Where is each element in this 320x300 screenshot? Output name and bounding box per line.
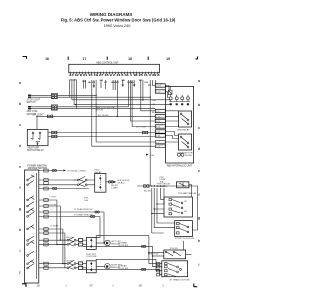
conn box a bbox=[44, 179, 48, 182]
svg-text:34 12 8 21 15 19 27 16 9 2 14: 34 12 8 21 15 19 27 16 9 2 14 6 31 1 18 … bbox=[69, 73, 160, 77]
M1 out wire i bbox=[39, 232, 65, 234]
svg-text:RT REAR WINDOW: RT REAR WINDOW bbox=[74, 214, 93, 217]
inline connector on g bbox=[90, 215, 95, 217]
inline connector top feed bbox=[52, 169, 57, 171]
U2 pin connector e bbox=[155, 119, 165, 123]
inter label bbox=[86, 254, 96, 258]
U2 internal wires from pins bbox=[166, 86, 179, 143]
svg-text:85: 85 bbox=[181, 104, 183, 106]
junction v63 bbox=[62, 263, 63, 264]
arrow terminal K2 bbox=[114, 181, 117, 183]
C2 contact 2 bbox=[67, 265, 76, 270]
U2 switch A contacts bbox=[180, 113, 189, 125]
arrow label bbox=[117, 180, 130, 184]
inline connector row2 (2-pole) bbox=[51, 105, 57, 110]
svg-text:b: b bbox=[198, 103, 200, 107]
svg-text:M: M bbox=[106, 241, 108, 245]
svg-text:|: | bbox=[113, 284, 114, 288]
rear switch SB3 box bbox=[162, 261, 188, 277]
U2 inner switch box B bbox=[179, 134, 192, 150]
wire row2 lower bbox=[31, 108, 155, 110]
wire drop elbow to h3 bbox=[72, 80, 171, 100]
M1 out wire g bbox=[39, 216, 100, 218]
wire drop to conn c bbox=[141, 80, 156, 111]
svg-text:3 BN: 3 BN bbox=[156, 121, 161, 123]
relay K1 box bbox=[177, 182, 189, 188]
SB2 terminals bbox=[177, 222, 180, 234]
svg-text:ABS HYDRAULIC UNIT: ABS HYDRAULIC UNIT bbox=[167, 165, 193, 168]
U2 pin connector b bbox=[155, 90, 165, 94]
wire M2 to motor bbox=[96, 242, 104, 244]
inline connector S1 upper bbox=[143, 131, 148, 135]
motor circle 1 bbox=[105, 240, 111, 246]
wire drop to conn b bbox=[154, 80, 156, 92]
U2 contact circles row bbox=[169, 95, 190, 106]
svg-text:SB: SB bbox=[122, 80, 125, 82]
relay K2 inner bbox=[100, 175, 101, 191]
grid corner top-right bbox=[196, 57, 198, 60]
ground ref arrow bbox=[146, 154, 149, 156]
svg-text:d: d bbox=[19, 144, 21, 148]
bottom grid marks bbox=[36, 284, 163, 288]
power window bus horizontal bbox=[137, 185, 198, 187]
K2 input contact 1 bbox=[77, 176, 87, 181]
mid mesh label 1 bbox=[96, 106, 115, 111]
window switch SB1 box bbox=[164, 197, 192, 217]
conn box b bbox=[44, 182, 48, 185]
svg-text:GN: GN bbox=[152, 104, 156, 106]
U2 inner coil bbox=[168, 86, 172, 94]
svg-text:25A: 25A bbox=[152, 99, 156, 102]
motor1 label bbox=[111, 241, 121, 245]
window motor M2 box bbox=[86, 237, 96, 249]
conn box top feed bbox=[44, 169, 48, 172]
grid tick top bbox=[68, 57, 69, 60]
wire pin stub 10 bbox=[112, 80, 114, 90]
M1 switch 5 bbox=[27, 208, 34, 213]
svg-text:|: | bbox=[163, 284, 164, 288]
wire drop long to conn i upper bbox=[96, 80, 155, 142]
conn box g bbox=[44, 215, 48, 218]
U2 switch B contacts bbox=[180, 136, 189, 148]
svg-text:8 GR: 8 GR bbox=[156, 127, 161, 129]
M1 out wire h bbox=[39, 228, 63, 230]
M1 switch 12 bbox=[27, 251, 34, 256]
svg-text:87: 87 bbox=[170, 104, 172, 106]
svg-text:RD: RD bbox=[152, 108, 156, 110]
M1 switch 8 bbox=[27, 236, 34, 241]
svg-text:f: f bbox=[198, 193, 200, 197]
svg-text:M: M bbox=[106, 265, 108, 269]
svg-text:OG: OG bbox=[145, 82, 149, 84]
svg-text:BL: BL bbox=[152, 112, 155, 114]
svg-text:DOOR SW: DOOR SW bbox=[118, 268, 128, 270]
svg-text:|: | bbox=[66, 284, 67, 288]
svg-text:RT REAR DOOR SW: RT REAR DOOR SW bbox=[170, 278, 190, 281]
svg-text:18: 18 bbox=[138, 284, 142, 288]
wire pin stub 9 bbox=[104, 80, 106, 89]
bus drop 1 bbox=[152, 188, 164, 233]
wire pin stub 5 bbox=[83, 80, 85, 89]
U2 pin connector c bbox=[155, 109, 165, 113]
inline conn marks hR4 bbox=[141, 268, 146, 270]
svg-text:ABS PUMP: ABS PUMP bbox=[27, 147, 39, 150]
M1 top feed wire bbox=[39, 170, 64, 172]
wire into B6 top bbox=[183, 241, 185, 250]
M1 switch 1 bbox=[27, 176, 34, 181]
svg-text:S/P JOINT: S/P JOINT bbox=[136, 127, 147, 129]
wire M3 to motor bbox=[96, 265, 104, 267]
svg-text:IN RUN: IN RUN bbox=[96, 109, 104, 111]
svg-text:e: e bbox=[198, 169, 200, 173]
arrow terminal top feed bbox=[64, 169, 67, 171]
svg-text:2 GN: 2 GN bbox=[156, 92, 161, 94]
label near f g bbox=[74, 208, 93, 217]
C1 contact 2 bbox=[67, 241, 76, 246]
motor circle 2 bbox=[105, 264, 111, 270]
svg-text:VT: VT bbox=[104, 82, 107, 84]
label mid right 2 bbox=[118, 265, 128, 270]
wire S1 out upper bbox=[48, 132, 155, 134]
svg-text:Fig. 5: ABS Ctrl Sw, Power Wi: Fig. 5: ABS Ctrl Sw, Power Window Door S… bbox=[61, 17, 176, 22]
relay K1 inner bbox=[179, 183, 186, 188]
svg-text:RD-WT: RD-WT bbox=[144, 190, 152, 192]
svg-text:9 GR: 9 GR bbox=[156, 146, 161, 148]
C1 conn boxes bbox=[79, 239, 83, 247]
relay K2 box bbox=[95, 173, 106, 192]
vertical feed v56.9 bbox=[57, 200, 67, 244]
junction dots bus bbox=[151, 185, 165, 186]
SB3 input conn boxes bbox=[157, 263, 160, 276]
svg-text:d: d bbox=[198, 147, 200, 151]
switch S1 contacts bbox=[31, 132, 41, 144]
U2 pin connector a bbox=[155, 84, 165, 88]
U2 pin connector d bbox=[155, 115, 165, 119]
inline conn marks hR2 bbox=[141, 245, 146, 247]
svg-text:h: h bbox=[19, 228, 21, 232]
svg-text:30: 30 bbox=[176, 104, 178, 106]
M1 out wire f bbox=[39, 211, 104, 213]
grid corner bottom-left bbox=[22, 284, 26, 288]
wire drop long to conn i lower bbox=[92, 80, 156, 146]
M1 switch 7 bbox=[27, 225, 34, 230]
ABS control unit U1 box bbox=[69, 64, 160, 73]
M1 switch 3 bbox=[27, 196, 34, 201]
bus drop 4 bbox=[161, 188, 164, 199]
conn box f bbox=[44, 211, 48, 214]
master switch M1 box bbox=[25, 170, 39, 283]
vertical feed v62.9 bbox=[63, 229, 67, 264]
conn box c bbox=[44, 187, 48, 190]
M3 inner bbox=[91, 262, 92, 272]
svg-text:a: a bbox=[19, 81, 21, 85]
B6 out bbox=[186, 253, 192, 255]
M1 switch arrows bbox=[31, 175, 34, 263]
circuit1 top wire right bbox=[96, 236, 149, 238]
svg-text:86: 86 bbox=[187, 104, 189, 106]
right bus vertical bbox=[192, 186, 197, 230]
M1 out wire d bbox=[39, 199, 57, 201]
svg-text:OR ACC: OR ACC bbox=[117, 181, 125, 184]
window switch SB2 box bbox=[175, 221, 193, 237]
svg-text:LT REAR: LT REAR bbox=[50, 224, 59, 227]
wire contacts to M3 bbox=[76, 264, 86, 268]
wire row2 bbox=[31, 106, 128, 108]
M1 switch 11 bbox=[27, 264, 34, 269]
svg-text:DOOR SW: DOOR SW bbox=[86, 256, 96, 258]
bus drop 5 bbox=[163, 188, 165, 204]
conn box h bbox=[44, 228, 48, 231]
svg-text:17: 17 bbox=[83, 57, 87, 61]
wire pin stub 8 bbox=[100, 80, 102, 88]
motor2 label bbox=[111, 265, 123, 269]
right column vertical 2 bbox=[153, 246, 162, 266]
wire drop to conn e bbox=[131, 80, 156, 121]
svg-text:i: i bbox=[20, 249, 21, 253]
svg-text:1990 Volvo 240: 1990 Volvo 240 bbox=[104, 23, 132, 28]
long bus wire drop center bbox=[149, 80, 151, 186]
svg-text:RT FRT DOOR SW: RT FRT DOOR SW bbox=[175, 238, 195, 240]
inline connector on c bbox=[52, 187, 57, 189]
door circuit 2 wires in bbox=[39, 264, 67, 268]
wire row1 bbox=[31, 94, 96, 96]
wire drop elbow to h6 bbox=[75, 80, 77, 109]
wire drop to conn f bbox=[132, 80, 155, 127]
C1 contact 1 bbox=[67, 237, 76, 242]
switch S1 box bbox=[27, 129, 48, 145]
svg-text:MOTOR RELAY: MOTOR RELAY bbox=[27, 149, 44, 152]
wire K2 out bbox=[106, 181, 113, 183]
conn box i bbox=[44, 232, 48, 235]
K2 input contact 2 bbox=[77, 181, 87, 186]
wire drop to row3 junction bbox=[116, 80, 118, 116]
B6 left feed 1 bbox=[149, 252, 164, 254]
right column vertical 4 bbox=[160, 269, 162, 274]
svg-text:f: f bbox=[19, 186, 21, 190]
M1 switch 9 bbox=[27, 240, 34, 245]
svg-text:HOT AT ALL TIMES: HOT AT ALL TIMES bbox=[68, 169, 87, 172]
svg-text:YE: YE bbox=[148, 85, 151, 87]
svg-text:SWITCH: SWITCH bbox=[27, 102, 36, 104]
M1 out wire a bbox=[39, 179, 78, 181]
grid tick top bbox=[148, 57, 149, 60]
svg-text:GN-RD: GN-RD bbox=[70, 80, 78, 82]
M1 switch 2 bbox=[27, 181, 34, 186]
label near d bbox=[84, 197, 88, 201]
inline connector row1 (2-pole) bbox=[51, 93, 57, 98]
svg-text:h: h bbox=[198, 239, 200, 243]
M1 switch 4 bbox=[27, 202, 34, 207]
wires K2 contacts bbox=[74, 180, 95, 185]
conn box e bbox=[44, 205, 48, 208]
inline connector bus bbox=[144, 184, 149, 188]
right column verticals bottom bbox=[149, 236, 162, 264]
conn box d bbox=[44, 199, 48, 202]
svg-text:19: 19 bbox=[166, 57, 170, 61]
wire K1 to SB1 bbox=[189, 185, 192, 197]
M1 switch 10 bbox=[27, 260, 34, 265]
bus drop 2 bbox=[154, 188, 175, 228]
U2 pin connector i upper bbox=[155, 141, 165, 144]
bus left label bbox=[111, 185, 119, 189]
wire drop dot on h3 bbox=[142, 80, 144, 100]
box B6 bbox=[164, 250, 186, 259]
door circuit 1 wires in bbox=[39, 240, 67, 244]
SB1 switch arms bbox=[172, 200, 183, 214]
inline connector row3 bbox=[48, 115, 53, 119]
svg-text:b: b bbox=[19, 102, 21, 106]
svg-text:c: c bbox=[198, 126, 200, 130]
svg-text:P/W MASTER SW: P/W MASTER SW bbox=[178, 192, 197, 195]
cross wire hR2 bbox=[83, 245, 153, 247]
SB3 terminals bbox=[165, 263, 168, 276]
wire to fuse arrow C bbox=[133, 80, 135, 85]
relay K2 label bbox=[95, 170, 103, 174]
svg-text:UP: UP bbox=[184, 201, 187, 203]
grid corner bottom-right bbox=[194, 284, 198, 288]
wire drop to row2 elbow bbox=[127, 80, 129, 107]
U2 pin connector f bbox=[155, 125, 165, 129]
grid corner top-left bbox=[23, 57, 27, 60]
vertical feed v100 bbox=[96, 217, 100, 238]
U2 diode pair bbox=[178, 153, 185, 156]
C2 contact 1 bbox=[67, 260, 76, 265]
inline connector on f bbox=[95, 211, 100, 213]
inline connector K2 out bbox=[108, 181, 113, 183]
vertical feed v60.3 bbox=[60, 206, 67, 240]
label mid right 1 bbox=[118, 242, 128, 247]
svg-text:DN: DN bbox=[184, 211, 187, 213]
vertical feed v104 bbox=[103, 212, 105, 243]
wire pin stub 11 bbox=[114, 80, 116, 90]
svg-text:g: g bbox=[198, 216, 200, 220]
U2 inner switch box A bbox=[179, 111, 192, 127]
svg-text:10A: 10A bbox=[84, 199, 88, 202]
wire to fuse arrow A bbox=[93, 80, 95, 86]
grid tick top bbox=[107, 57, 108, 60]
bus label above bbox=[160, 177, 166, 184]
svg-text:BREAKER: BREAKER bbox=[157, 185, 168, 188]
svg-text:1.5MM: 1.5MM bbox=[111, 188, 118, 190]
svg-text:5 BL: 5 BL bbox=[156, 111, 160, 113]
svg-text:e: e bbox=[19, 165, 21, 169]
row1 terminal stubs bbox=[28, 95, 31, 97]
M1 out wire c to relay bbox=[39, 188, 89, 190]
B6 left feed 2 bbox=[153, 255, 164, 257]
M1 switch 6 bbox=[27, 212, 34, 217]
svg-text:g: g bbox=[19, 207, 21, 211]
junction row3 bbox=[117, 116, 119, 118]
circuit2 top wire right bbox=[96, 259, 156, 260]
taps into SB1 bbox=[152, 204, 164, 214]
C2 conn boxes bbox=[79, 262, 83, 270]
junction v57 bbox=[56, 244, 57, 245]
M2 inner bbox=[91, 239, 92, 249]
relay K1 label bbox=[157, 184, 171, 189]
svg-text:MASTER SWITCH: MASTER SWITCH bbox=[28, 167, 48, 170]
svg-text:WIRING DIAGRAMS: WIRING DIAGRAMS bbox=[90, 12, 133, 17]
junction dot h4 bbox=[75, 104, 77, 106]
U1 pin comb bbox=[70, 72, 157, 75]
svg-text:17: 17 bbox=[89, 284, 93, 288]
right column vertical 3 bbox=[156, 259, 162, 270]
left margin row letters bbox=[19, 81, 22, 274]
master switch M1 label bbox=[27, 165, 47, 170]
svg-text:GR: GR bbox=[100, 80, 104, 82]
wire contacts to M2 bbox=[76, 240, 86, 244]
misc wire labels bbox=[50, 196, 74, 262]
wire row1 lower bbox=[31, 96, 150, 98]
U1 wire color labels bbox=[70, 80, 152, 88]
wire row3 bbox=[37, 115, 155, 117]
svg-text:DOOR SW: DOOR SW bbox=[118, 245, 128, 247]
window motor M3 box bbox=[86, 261, 96, 273]
M1 out wire b bbox=[39, 184, 78, 186]
svg-text:16: 16 bbox=[36, 284, 40, 288]
bus drop 3 bbox=[157, 188, 175, 223]
junction v60 bbox=[60, 240, 61, 241]
svg-text:j: j bbox=[19, 270, 21, 274]
svg-text:P/W SW: P/W SW bbox=[170, 248, 178, 250]
inline connector S1 lower bbox=[52, 135, 57, 139]
svg-text:ABS CTRL: ABS CTRL bbox=[27, 110, 39, 113]
SB2 switch arms bbox=[180, 224, 189, 233]
SB3 switch arms bbox=[168, 264, 181, 277]
M1 out wire e bbox=[39, 205, 61, 207]
svg-text:16: 16 bbox=[45, 57, 49, 61]
wire pin stub 6 bbox=[85, 80, 87, 89]
svg-text:10 RD: 10 RD bbox=[156, 86, 162, 88]
U2 pin connector g bbox=[155, 130, 165, 134]
svg-text:c: c bbox=[19, 123, 21, 127]
U2 pin connector i lower bbox=[155, 145, 165, 148]
svg-text:REAR P/W: REAR P/W bbox=[148, 253, 158, 256]
vertical feed v64.9 bbox=[65, 233, 67, 268]
wire drop to conn a bbox=[152, 80, 155, 86]
cross wire hR4 bbox=[83, 268, 160, 270]
ABS hydraulic unit U2 box bbox=[166, 86, 194, 163]
wire S1 top to row3 bbox=[36, 116, 38, 129]
svg-text:i: i bbox=[199, 263, 200, 267]
svg-text:LT REAR WINDOW: LT REAR WINDOW bbox=[74, 208, 92, 211]
svg-text:a: a bbox=[198, 79, 200, 83]
B6 inner bbox=[165, 251, 181, 256]
wire drop elbow to h2 bbox=[69, 80, 71, 97]
svg-text:18: 18 bbox=[128, 57, 132, 61]
svg-text:LT FRT: LT FRT bbox=[50, 196, 57, 198]
row2 terminal stubs bbox=[28, 106, 31, 108]
right margin row letters bbox=[198, 79, 200, 267]
SB1 terminals bbox=[169, 198, 172, 214]
wire drop elbow to h4 bbox=[74, 80, 172, 105]
wire S1 out lower bbox=[48, 136, 155, 138]
svg-text:DIODE: DIODE bbox=[185, 155, 192, 157]
stack labels left of U2 bbox=[152, 99, 156, 114]
U2 pin connector h bbox=[155, 134, 165, 138]
wire to fuse arrow B bbox=[122, 80, 124, 85]
svg-text:ABS RELAY: ABS RELAY bbox=[178, 128, 191, 131]
svg-text:G104: G104 bbox=[149, 155, 155, 157]
M1 inner bus bbox=[36, 173, 38, 279]
